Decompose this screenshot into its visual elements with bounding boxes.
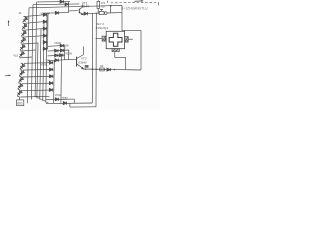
- wire node drop: [109, 6, 112, 13]
- diode chain VD1-VD7: [18, 16, 29, 58]
- wire emitter row: [84, 69, 141, 70]
- dashed line end hook: [157, 2, 159, 5]
- diode lower col 3: [49, 75, 52, 78]
- counter cross symbol: [109, 33, 122, 46]
- svg-text:7B: 7B: [101, 5, 105, 9]
- matrix row u4: [23, 36, 43, 37]
- wire row3 short: [44, 12, 69, 15]
- svg-text:V15: V15: [13, 54, 18, 58]
- bottom row C: [70, 106, 96, 108]
- bus vertical 6: [43, 22, 46, 101]
- node junction dot: [110, 5, 112, 7]
- wire right vertical upper: [121, 6, 123, 31]
- arrow mark lower left: [5, 75, 11, 77]
- diode VD46: [107, 68, 110, 71]
- wire counter left tab: [96, 38, 103, 40]
- wire R1 top stub: [97, 0, 99, 1]
- wire counter bottom down: [114, 52, 116, 57]
- wire chain2 tail to box: [18, 96, 21, 100]
- gate vertical a: [64, 45, 66, 59]
- matrix row l6: [20, 95, 49, 98]
- svg-text:J1SUQ1: J1SUQ1: [95, 26, 108, 30]
- matrix row u3: [24, 29, 43, 31]
- wire R1 bottom: [97, 8, 99, 13]
- diode VD50: [55, 98, 58, 101]
- wire row1 down to VT1 base: [68, 2, 70, 13]
- matrix row l2: [23, 69, 49, 72]
- wire outer right vertical: [140, 30, 142, 70]
- matrix row l4: [22, 82, 50, 85]
- wire node to right corner: [111, 5, 122, 7]
- junction dot emitter b: [92, 68, 94, 70]
- diode column lower rail: [53, 61, 56, 104]
- wire top row 1: [37, 1, 70, 3]
- tick right of R1 text: [107, 1, 109, 3]
- diode VD33b: [60, 54, 63, 57]
- counter left terminal: [102, 36, 106, 41]
- gate vertical b: [68, 50, 70, 60]
- diode row u1: [43, 13, 46, 16]
- svg-text:B+1ZHUANGTLU: B+1ZHUANGTLU: [121, 7, 148, 11]
- transistor VT1: [79, 5, 83, 15]
- bus vertical 4: [37, 43, 40, 98]
- junction dot row13 a: [96, 13, 97, 14]
- diode VD33: [55, 54, 58, 57]
- diode VD45: [84, 12, 87, 15]
- matrix row u2: [25, 22, 44, 24]
- wire drop b to bottom: [91, 13, 93, 103]
- counter bottom terminal: [112, 49, 119, 52]
- label VT2 value mark: [85, 65, 89, 68]
- diode VD41: [60, 0, 63, 3]
- svg-text:E3640: E3640: [79, 60, 88, 64]
- wire down to emitter row: [125, 57, 127, 69]
- bottom row A: [46, 98, 74, 101]
- wire corner to outer right: [122, 29, 141, 31]
- diode VD32b: [60, 49, 63, 52]
- diode VD43: [55, 11, 58, 14]
- wire drop c to bottom: [95, 13, 97, 107]
- diode rail extra 2: [43, 47, 46, 50]
- wire top row 3 to node: [29, 6, 111, 8]
- matrix row l3: [22, 75, 49, 78]
- arrow above dashed line: [135, 0, 144, 2]
- diode VD42: [65, 3, 68, 6]
- gate row 1: [48, 44, 65, 47]
- diode row u3: [43, 27, 46, 30]
- matrix row u6: [22, 50, 36, 51]
- matrix row u7: [21, 56, 32, 59]
- bus vertical 1: [27, 8, 29, 103]
- diode row u2: [43, 20, 46, 23]
- side vertical x61: [60, 56, 63, 103]
- wire VT1 emitter row: [83, 13, 99, 15]
- bus vertical 2: [32, 5, 34, 100]
- diode lower col 4: [49, 82, 52, 85]
- bus vertical 3: [35, 2, 38, 97]
- gate row 2: [48, 50, 69, 51]
- diode lower col 1: [49, 61, 52, 64]
- resistor box label 601: [17, 100, 24, 106]
- resistor R1: [97, 1, 100, 8]
- wire VT1 base feed: [69, 10, 78, 12]
- diode column upper rail: [47, 13, 49, 50]
- wire circle to x122: [107, 12, 122, 14]
- gate row 4: [48, 59, 77, 61]
- diode VD51: [63, 102, 66, 105]
- diode chain lower: [16, 63, 26, 97]
- bus vertical 5: [40, 29, 43, 100]
- junction dot emitter a: [85, 69, 86, 70]
- diode VD32: [55, 49, 58, 52]
- diode lower col 2: [49, 68, 52, 71]
- svg-text:VD44: VD44: [81, 5, 89, 9]
- svg-text:VD8 4P: VD8 4P: [41, 12, 51, 16]
- wire VT2 collector stub: [83, 47, 85, 55]
- matrix row l1: [24, 62, 50, 65]
- diode rail extra 1: [43, 41, 46, 44]
- component box emitter row: [100, 68, 105, 71]
- wire top row 2: [33, 3, 79, 6]
- wire counter bottom right: [115, 56, 126, 58]
- junction dot emitter c: [95, 68, 97, 70]
- counter right terminal: [125, 37, 128, 43]
- bus vertical 7: [46, 15, 49, 102]
- diode row u4: [43, 34, 46, 37]
- svg-text:601: 601: [17, 102, 23, 106]
- dashed line to +1 circuit: [111, 1, 159, 4]
- pushbutton SB: [99, 9, 104, 14]
- matrix row u5: [23, 43, 38, 44]
- junction dot row13 b: [98, 13, 99, 14]
- diode lower col 5: [49, 88, 52, 91]
- counter J box: [106, 31, 124, 48]
- diode VD31: [60, 44, 63, 47]
- matrix row u1: [25, 15, 43, 17]
- matrix row l5: [21, 89, 49, 92]
- terminal circle: [105, 12, 108, 15]
- bottom row A hook: [73, 99, 75, 103]
- gate row 3: [48, 54, 65, 57]
- bottom row B: [46, 102, 92, 105]
- arrow mark upper left: [8, 20, 10, 26]
- wire counter right stub: [128, 38, 133, 40]
- svg-text:VD31: VD31: [41, 62, 48, 66]
- junction dot emitter d: [114, 69, 115, 70]
- transistor VT2: [77, 55, 84, 69]
- diode VD39: [55, 59, 58, 62]
- bottom row B-C vertical: [69, 103, 71, 107]
